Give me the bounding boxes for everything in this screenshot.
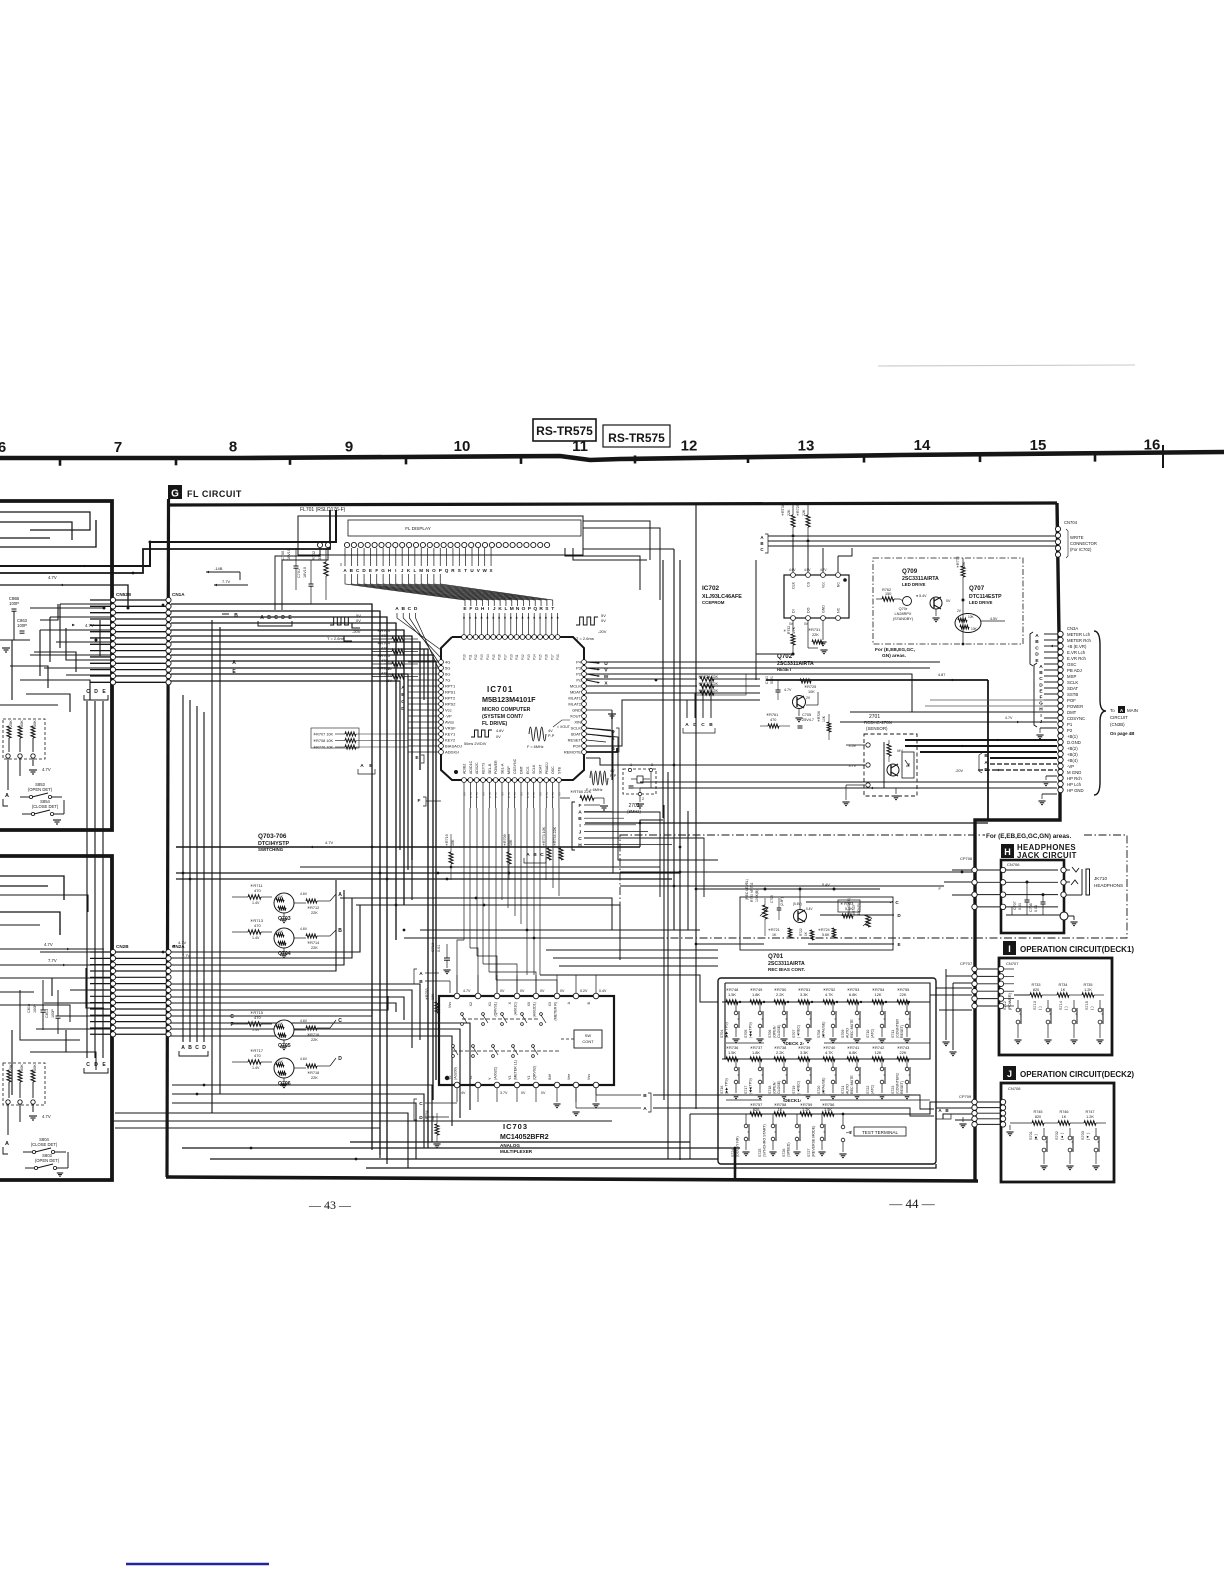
- svg-text:B: B: [267, 615, 271, 621]
- svg-text:(METER R): (METER R): [554, 1002, 558, 1021]
- svg-text:✳R709: ✳R709: [503, 834, 507, 846]
- svg-text:T: T: [464, 568, 467, 573]
- CN3A long feed wires: [930, 699, 1057, 701]
- svg-text:1.4V: 1.4V: [252, 1028, 260, 1032]
- deck1 feed wires from matrix: [936, 987, 972, 989]
- svg-text:R733: R733: [1031, 983, 1040, 987]
- svg-text:SEL-A: SEL-A: [500, 763, 504, 774]
- SCLK SDAT wires right: [586, 728, 611, 730]
- svg-text:470: 470: [254, 1053, 261, 1058]
- svg-text:4.7V: 4.7V: [42, 767, 51, 772]
- svg-text:(CLOSE DET): (CLOSE DET): [32, 804, 59, 809]
- MCLK MDAT MLAT lines with resistors: [586, 678, 697, 680]
- ruler registration mark: [1162, 445, 1164, 468]
- svg-text:4.7V: 4.7V: [507, 792, 511, 798]
- svg-text:REC BIAS CONT.: REC BIAS CONT.: [768, 967, 805, 972]
- svg-text:4.7V: 4.7V: [488, 792, 492, 798]
- IC701 top pins: [462, 635, 467, 640]
- connector CN2A pins: [166, 949, 171, 954]
- svg-text:D: D: [693, 722, 697, 728]
- svg-text:3.3K: 3.3K: [800, 1050, 808, 1055]
- svg-text:T = 2.6ms: T = 2.6ms: [576, 636, 594, 641]
- IC703 bottom pins: [454, 1082, 460, 1088]
- svg-text:14: 14: [914, 437, 931, 454]
- rail 4.87: [766, 679, 988, 681]
- svg-text:4.7V: 4.7V: [44, 942, 53, 947]
- svg-text:B: B: [188, 1045, 192, 1051]
- svg-text:J: J: [493, 606, 496, 612]
- svg-text:M5B123M4101F: M5B123M4101F: [482, 695, 536, 704]
- svg-text:1.2K: 1.2K: [1086, 1115, 1094, 1119]
- svg-text:4.6V: 4.6V: [300, 927, 308, 931]
- svg-text:CDSYNC: CDSYNC: [513, 758, 517, 774]
- HP wires: [640, 781, 1057, 783]
- matrix feed wires: [718, 1001, 722, 1003]
- resistor load Q704: [306, 934, 317, 938]
- svg-text:R: R: [539, 606, 543, 612]
- block2 long wire to right: [112, 1120, 612, 1122]
- svg-text:-VP: -VP: [445, 714, 452, 719]
- svg-text:CP706: CP706: [960, 856, 973, 861]
- letter column wires extended: [584, 812, 660, 897]
- svg-text:INH: INH: [548, 1073, 552, 1080]
- svg-text:(A0200): (A0200): [454, 1067, 458, 1080]
- deck2 connector wires: [977, 1101, 1001, 1103]
- block2 entry wires: [0, 912, 60, 935]
- svg-text:OPERATION CIRCUIT(DECK2): OPERATION CIRCUIT(DECK2): [1020, 1070, 1134, 1079]
- svg-text:(OPEN DET): (OPEN DET): [28, 787, 53, 792]
- svg-text:C705: C705: [802, 713, 811, 717]
- svg-text:22K: 22K: [802, 509, 806, 516]
- svg-text:22K: 22K: [787, 509, 791, 516]
- svg-text:0V: 0V: [500, 792, 504, 796]
- faint scan line: [878, 365, 1135, 366]
- svg-text:XOUT: XOUT: [570, 714, 582, 719]
- svg-text:A: A: [1039, 664, 1043, 670]
- transistor Q709 device: [930, 597, 942, 609]
- svg-text:R745: R745: [1033, 1110, 1042, 1114]
- svg-text:MULTIPLEXER: MULTIPLEXER: [500, 1149, 533, 1154]
- long rail 4.7V mid: [176, 846, 640, 848]
- FL display inner box: [348, 520, 581, 536]
- svg-text:O: O: [432, 568, 436, 573]
- svg-text:S710: S710: [866, 1030, 870, 1038]
- vertical bundle long: [371, 604, 373, 1148]
- svg-text:(2.8F): (2.8F): [780, 897, 784, 906]
- svg-text:POF: POF: [573, 744, 582, 749]
- IC701 left pin stubs: [408, 661, 439, 663]
- FL wires fan to IC701: [345, 574, 465, 606]
- svg-text:RS-TR575: RS-TR575: [608, 431, 665, 445]
- svg-text:F = 6MHz: F = 6MHz: [527, 745, 544, 749]
- svg-text:22K: 22K: [311, 946, 318, 950]
- svg-text:IC701: IC701: [487, 685, 513, 694]
- transistor Q702 device: [793, 696, 806, 709]
- svg-text:B: B: [760, 541, 763, 546]
- svg-text:P-P: P-P: [610, 774, 617, 778]
- svg-text:To: To: [1110, 708, 1115, 713]
- svg-text:(OPEN/: (OPEN/: [773, 1026, 777, 1038]
- svg-text:MICRO COMPUTER: MICRO COMPUTER: [482, 707, 531, 713]
- svg-text:D: D: [94, 689, 98, 695]
- svg-text:B: B: [338, 928, 342, 934]
- svg-text:✳R729: ✳R729: [796, 504, 800, 516]
- svg-text:4.8V: 4.8V: [496, 729, 504, 733]
- svg-text:REC MUTE: REC MUTE: [850, 1075, 854, 1094]
- svg-text:JK710: JK710: [1094, 876, 1107, 881]
- IC701 right pins: [582, 660, 587, 665]
- svg-text:P11: P11: [515, 654, 519, 660]
- blue footer bar: [126, 1563, 269, 1566]
- svg-text:A: A: [232, 660, 236, 666]
- svg-text:0V: 0V: [519, 792, 523, 796]
- svg-text:470: 470: [254, 888, 261, 893]
- svg-text:0V: 0V: [601, 618, 606, 623]
- svg-text:16V10: 16V10: [287, 549, 291, 560]
- svg-text:E: E: [897, 942, 900, 947]
- svg-text:7.7V: 7.7V: [48, 958, 57, 963]
- svg-text:CN707: CN707: [1006, 961, 1019, 966]
- IC702 pin stub wires: [792, 538, 794, 572]
- GND stub: [586, 709, 612, 711]
- svg-text:DI: DI: [792, 609, 796, 613]
- transistor Q707 device: [955, 614, 981, 633]
- svg-text:(▶▶ TPS): (▶▶ TPS): [725, 1078, 729, 1094]
- wires LED drive box: [921, 540, 923, 558]
- svg-text:BIASAOJ: BIASAOJ: [445, 744, 462, 749]
- svg-text:METER Rch: METER Rch: [1067, 638, 1091, 643]
- svg-text:PB ADJ: PB ADJ: [1067, 668, 1082, 673]
- svg-text:S706: S706: [768, 1030, 772, 1038]
- svg-text:P14: P14: [486, 654, 490, 660]
- svg-text:10K: 10K: [277, 930, 284, 934]
- waveform inside IC701 sine: [529, 727, 546, 741]
- block2 internal wires: [20, 990, 80, 1040]
- svg-text:S707: S707: [792, 1030, 796, 1038]
- svg-text:C701: C701: [297, 569, 301, 578]
- svg-text:ANALOG: ANALOG: [500, 1143, 520, 1148]
- svg-text:R720 VR702: R720 VR702: [750, 882, 754, 902]
- svg-text:C: C: [338, 1018, 342, 1024]
- svg-text:15: 15: [1030, 437, 1047, 454]
- CN2A lower horizontal wires: [172, 1085, 432, 1142]
- svg-text:( ●REC): ( ●REC): [797, 1025, 801, 1038]
- IC701 left pins: [439, 660, 444, 665]
- svg-text:D: D: [281, 615, 285, 621]
- svg-text:Q: Q: [445, 568, 449, 573]
- svg-text:ADID1C: ADID1C: [469, 760, 473, 774]
- svg-text:10K: 10K: [277, 1060, 284, 1064]
- connector CN2B pins: [110, 949, 115, 954]
- svg-text:LED DRIVE: LED DRIVE: [969, 600, 992, 605]
- svg-text:(A002C): (A002C): [494, 1067, 498, 1080]
- svg-text:25K: 25K: [9, 1064, 13, 1071]
- svg-text:2: 2: [642, 797, 644, 801]
- svg-text:(DOLBY NR): (DOLBY NR): [736, 1136, 740, 1157]
- svg-text:J: J: [401, 568, 404, 573]
- svg-text:A: A: [419, 971, 423, 977]
- svg-text:SSTB: SSTB: [1067, 692, 1078, 697]
- svg-text:ECS: ECS: [526, 766, 530, 774]
- svg-text:50K: 50K: [20, 1064, 24, 1071]
- RESET POF REMOTE wires: [586, 700, 756, 746]
- svg-text:CP707: CP707: [960, 961, 973, 966]
- svg-text:S703: S703: [1081, 1131, 1085, 1140]
- svg-text:7.7V: 7.7V: [182, 953, 191, 958]
- svg-text:P15: P15: [492, 654, 496, 660]
- svg-text:A: A: [5, 1141, 9, 1147]
- svg-text:4.7V: 4.7V: [469, 792, 473, 798]
- svg-text:2.2K: 2.2K: [776, 992, 784, 997]
- svg-text:RPS2: RPS2: [445, 702, 456, 707]
- svg-text:RESET): RESET): [900, 1081, 904, 1094]
- M GND stub: [1046, 775, 1057, 777]
- ruler line: [0, 452, 1224, 460]
- svg-text:R735: R735: [1083, 983, 1092, 987]
- CN2B left side wires: [40, 951, 110, 953]
- connector pins block2: [6, 1100, 10, 1104]
- section label G: [168, 485, 182, 499]
- svg-text:F: F: [579, 803, 582, 809]
- svg-text:P11: P11: [468, 654, 472, 660]
- svg-text:— 44 —: — 44 —: [888, 1196, 936, 1211]
- svg-text:D: D: [1035, 652, 1039, 658]
- svg-text:NC: NC: [837, 607, 841, 613]
- svg-text:22K: 22K: [900, 992, 907, 997]
- svg-text:LED DRIVE: LED DRIVE: [902, 582, 925, 587]
- svg-text:Q703-706: Q703-706: [258, 833, 287, 840]
- IC703 top pins: [454, 993, 460, 999]
- svg-text:6.8K: 6.8K: [849, 992, 857, 997]
- svg-text:5G: 5G: [445, 666, 450, 671]
- svg-text:CLOSE): CLOSE): [777, 1081, 781, 1094]
- svg-text:P17: P17: [503, 654, 507, 660]
- section label I: [1003, 941, 1016, 955]
- svg-text:50V1: 50V1: [770, 676, 774, 684]
- svg-text:4.7V: 4.7V: [463, 989, 471, 993]
- svg-text:(SPEED): (SPEED): [787, 1142, 791, 1157]
- connector CN3A pins and labels: [1058, 631, 1063, 636]
- svg-text:(▶▶ TPS): (▶▶ TPS): [725, 1022, 729, 1038]
- svg-text:0V: 0V: [496, 735, 501, 739]
- headphone jack pins: [1061, 867, 1066, 872]
- svg-text:4.6V: 4.6V: [300, 1019, 308, 1023]
- svg-text:MLAT1: MLAT1: [568, 696, 581, 701]
- svg-text:1.4V: 1.4V: [252, 936, 260, 940]
- svg-text:L: L: [413, 568, 416, 573]
- svg-text:-14B: -14B: [214, 566, 223, 571]
- long horizontal wires lower midfield: [420, 929, 700, 931]
- svg-text:7: 7: [114, 439, 122, 456]
- svg-text:✳R714: ✳R714: [307, 941, 319, 945]
- svg-text:MSP: MSP: [507, 766, 511, 774]
- svg-text:SW: SW: [585, 1033, 592, 1038]
- svg-text:(ATC): (ATC): [871, 1029, 875, 1038]
- svg-text:M: M: [510, 606, 514, 612]
- svg-text:6.8K: 6.8K: [849, 1050, 857, 1055]
- svg-text:✳R716: ✳R716: [307, 1033, 319, 1037]
- SW CONT box: [574, 1030, 602, 1048]
- svg-text:(QRV92): (QRV92): [533, 1066, 537, 1080]
- svg-text:0.4V: 0.4V: [599, 989, 607, 993]
- svg-text:1.5K: 1.5K: [728, 1050, 736, 1055]
- svg-text:22K: 22K: [311, 1076, 318, 1080]
- svg-text:4.7V: 4.7V: [494, 792, 498, 798]
- IC703 body: [439, 996, 614, 1085]
- svg-text:0.01: 0.01: [437, 945, 441, 952]
- svg-text:✳R773 10K: ✳R773 10K: [542, 826, 546, 846]
- svg-text:✳R707 10K: ✳R707 10K: [313, 733, 334, 737]
- svg-text:P12: P12: [521, 654, 525, 660]
- svg-text:B: B: [401, 692, 405, 698]
- svg-text:RS-TR575: RS-TR575: [536, 424, 593, 438]
- svg-text:CS: CS: [807, 581, 811, 587]
- svg-text:S726: S726: [782, 1149, 786, 1157]
- svg-text:F: F: [469, 606, 472, 612]
- svg-text:POWER: POWER: [494, 760, 498, 774]
- svg-text:4.7V: 4.7V: [526, 792, 530, 798]
- svg-text:50K: 50K: [33, 720, 37, 727]
- svg-text:1.5K: 1.5K: [728, 992, 736, 997]
- svg-text:4.6V: 4.6V: [300, 1057, 308, 1061]
- svg-text:TEST TERMINAL: TEST TERMINAL: [862, 1130, 899, 1135]
- svg-text:KEY2: KEY2: [445, 738, 456, 743]
- svg-text:100P: 100P: [17, 623, 27, 628]
- svg-text:1K: 1K: [772, 933, 777, 937]
- svg-text:+B(1): +B(1): [1067, 734, 1078, 739]
- svg-text:GND: GND: [822, 605, 826, 613]
- svg-text:X0: X0: [527, 1002, 531, 1006]
- resistor load Q706: [306, 1064, 317, 1068]
- deck2 box: [1001, 1083, 1114, 1182]
- svg-text:SCLK: SCLK: [532, 764, 536, 774]
- svg-text:R734: R734: [1058, 983, 1067, 987]
- svg-text:A: A: [181, 1045, 185, 1051]
- svg-text:X2: X2: [469, 1002, 473, 1006]
- svg-text:(SYNCHRO START): (SYNCHRO START): [763, 1124, 767, 1157]
- FL display pins: [317, 542, 322, 547]
- svg-text:AUTO: AUTO: [846, 1028, 850, 1038]
- deck2 feed wires from matrix: [689, 1114, 691, 1159]
- svg-text:(For IC702): (For IC702): [1070, 547, 1092, 552]
- svg-text:OPERATION CIRCUIT(DECK1): OPERATION CIRCUIT(DECK1): [1020, 945, 1134, 954]
- svg-text:GND: GND: [572, 708, 581, 713]
- svg-text:Vss: Vss: [448, 1002, 452, 1008]
- svg-text:(■PAUSE): (■PAUSE): [822, 1022, 826, 1038]
- resistor load Q703: [306, 899, 317, 903]
- svg-text:4.7V: 4.7V: [325, 840, 334, 845]
- svg-text:C: C: [1039, 676, 1043, 682]
- svg-text:S717: S717: [744, 1086, 748, 1094]
- svg-text:WRITE: WRITE: [1070, 535, 1084, 540]
- svg-text:4.5V: 4.5V: [990, 617, 998, 621]
- svg-text:IC703: IC703: [503, 1122, 528, 1131]
- svg-text:M GND: M GND: [1067, 770, 1081, 775]
- svg-text:S702: S702: [1055, 1131, 1059, 1140]
- svg-text:HP Rch: HP Rch: [1067, 776, 1082, 781]
- svg-text:CDSYNC: CDSYNC: [1067, 716, 1085, 721]
- svg-text:100P: 100P: [51, 1009, 55, 1018]
- svg-text:(REVERSE MODE): (REVERSE MODE): [812, 1126, 816, 1157]
- CN1A short jog wires: [171, 623, 360, 628]
- svg-text:Y1: Y1: [527, 1076, 531, 1080]
- svg-text:C: C: [86, 1062, 90, 1068]
- svg-text:RPT1: RPT1: [445, 684, 456, 689]
- svg-text:X3: X3: [548, 1002, 552, 1006]
- svg-text:ADDIGI: ADDIGI: [445, 750, 459, 755]
- svg-text:P2: P2: [576, 672, 582, 677]
- svg-text:SCLK: SCLK: [1067, 680, 1078, 685]
- svg-text:REC MUTE: REC MUTE: [850, 1019, 854, 1038]
- svg-text:+B(2): +B(2): [1067, 746, 1078, 751]
- svg-text:MDAT: MDAT: [570, 690, 582, 695]
- bottom bus wires: [182, 1147, 740, 1149]
- vertical wire bundle from IC701 bottom: [463, 783, 465, 808]
- svg-text:4.7K: 4.7K: [792, 626, 796, 634]
- sensor 2701 dashed box: [864, 734, 917, 796]
- svg-text:47K: 47K: [280, 1035, 287, 1039]
- svg-text:SDAT: SDAT: [1067, 686, 1079, 691]
- svg-text:0V: 0V: [500, 989, 505, 993]
- svg-text:P: P: [439, 568, 442, 573]
- svg-text:1.8K: 1.8K: [752, 992, 760, 997]
- row C rail: [690, 1113, 843, 1115]
- svg-text:OSC: OSC: [551, 766, 555, 774]
- svg-text:100K(B): 100K(B): [755, 890, 759, 902]
- CN52B left corner wires: [59, 604, 61, 648]
- svg-text:-20V: -20V: [352, 629, 361, 634]
- svg-text:H: H: [481, 606, 485, 612]
- svg-text:CONNECTOR: CONNECTOR: [1070, 541, 1097, 546]
- svg-text:PBADJ: PBADJ: [545, 762, 549, 774]
- svg-text:1.2K: 1.2K: [1084, 988, 1092, 992]
- svg-text:CN1A: CN1A: [172, 592, 185, 597]
- svg-text:+B(4): +B(4): [1067, 758, 1078, 763]
- svg-text:470: 470: [254, 1015, 261, 1020]
- svg-text:10K: 10K: [509, 839, 513, 846]
- svg-text:FL701 (RSLD176-F): FL701 (RSLD176-F): [300, 507, 346, 513]
- svg-text:16V10: 16V10: [303, 567, 307, 578]
- svg-text:A: A: [338, 892, 342, 898]
- CN2A fan-out wires: [171, 905, 360, 952]
- svg-text:10: 10: [454, 438, 471, 455]
- svg-text:22K: 22K: [311, 911, 318, 915]
- sensor ground: [884, 787, 908, 789]
- svg-text:MV: MV: [897, 749, 903, 753]
- section label H: [1001, 844, 1014, 858]
- svg-text:Y2: Y2: [469, 1076, 473, 1080]
- svg-text:4.7V: 4.7V: [784, 688, 792, 692]
- svg-text:C: C: [195, 1045, 199, 1051]
- svg-text:X1: X1: [488, 1002, 492, 1006]
- svg-text:S705: S705: [744, 1030, 748, 1038]
- transistor Q701 device: [794, 910, 807, 923]
- svg-text:MC14052BFR2: MC14052BFR2: [500, 1134, 549, 1141]
- svg-text:0V: 0V: [463, 792, 467, 796]
- svg-text:S718: S718: [768, 1086, 772, 1094]
- svg-text:POWER: POWER: [1067, 704, 1083, 709]
- svg-text:P3: P3: [576, 666, 582, 671]
- svg-text:4.7V: 4.7V: [48, 575, 57, 580]
- svg-text:7G: 7G: [445, 678, 450, 683]
- svg-text:(■PAUSE): (■PAUSE): [822, 1078, 826, 1094]
- svg-text:S: S: [458, 568, 461, 573]
- svg-text:= XOUT: = XOUT: [557, 725, 571, 729]
- wires into headphones from left: [620, 871, 972, 873]
- svg-text:KEY73: KEY73: [481, 763, 485, 774]
- svg-text:HP Lch: HP Lch: [1067, 782, 1082, 787]
- svg-text:(▼ ): (▼ ): [1086, 1132, 1090, 1140]
